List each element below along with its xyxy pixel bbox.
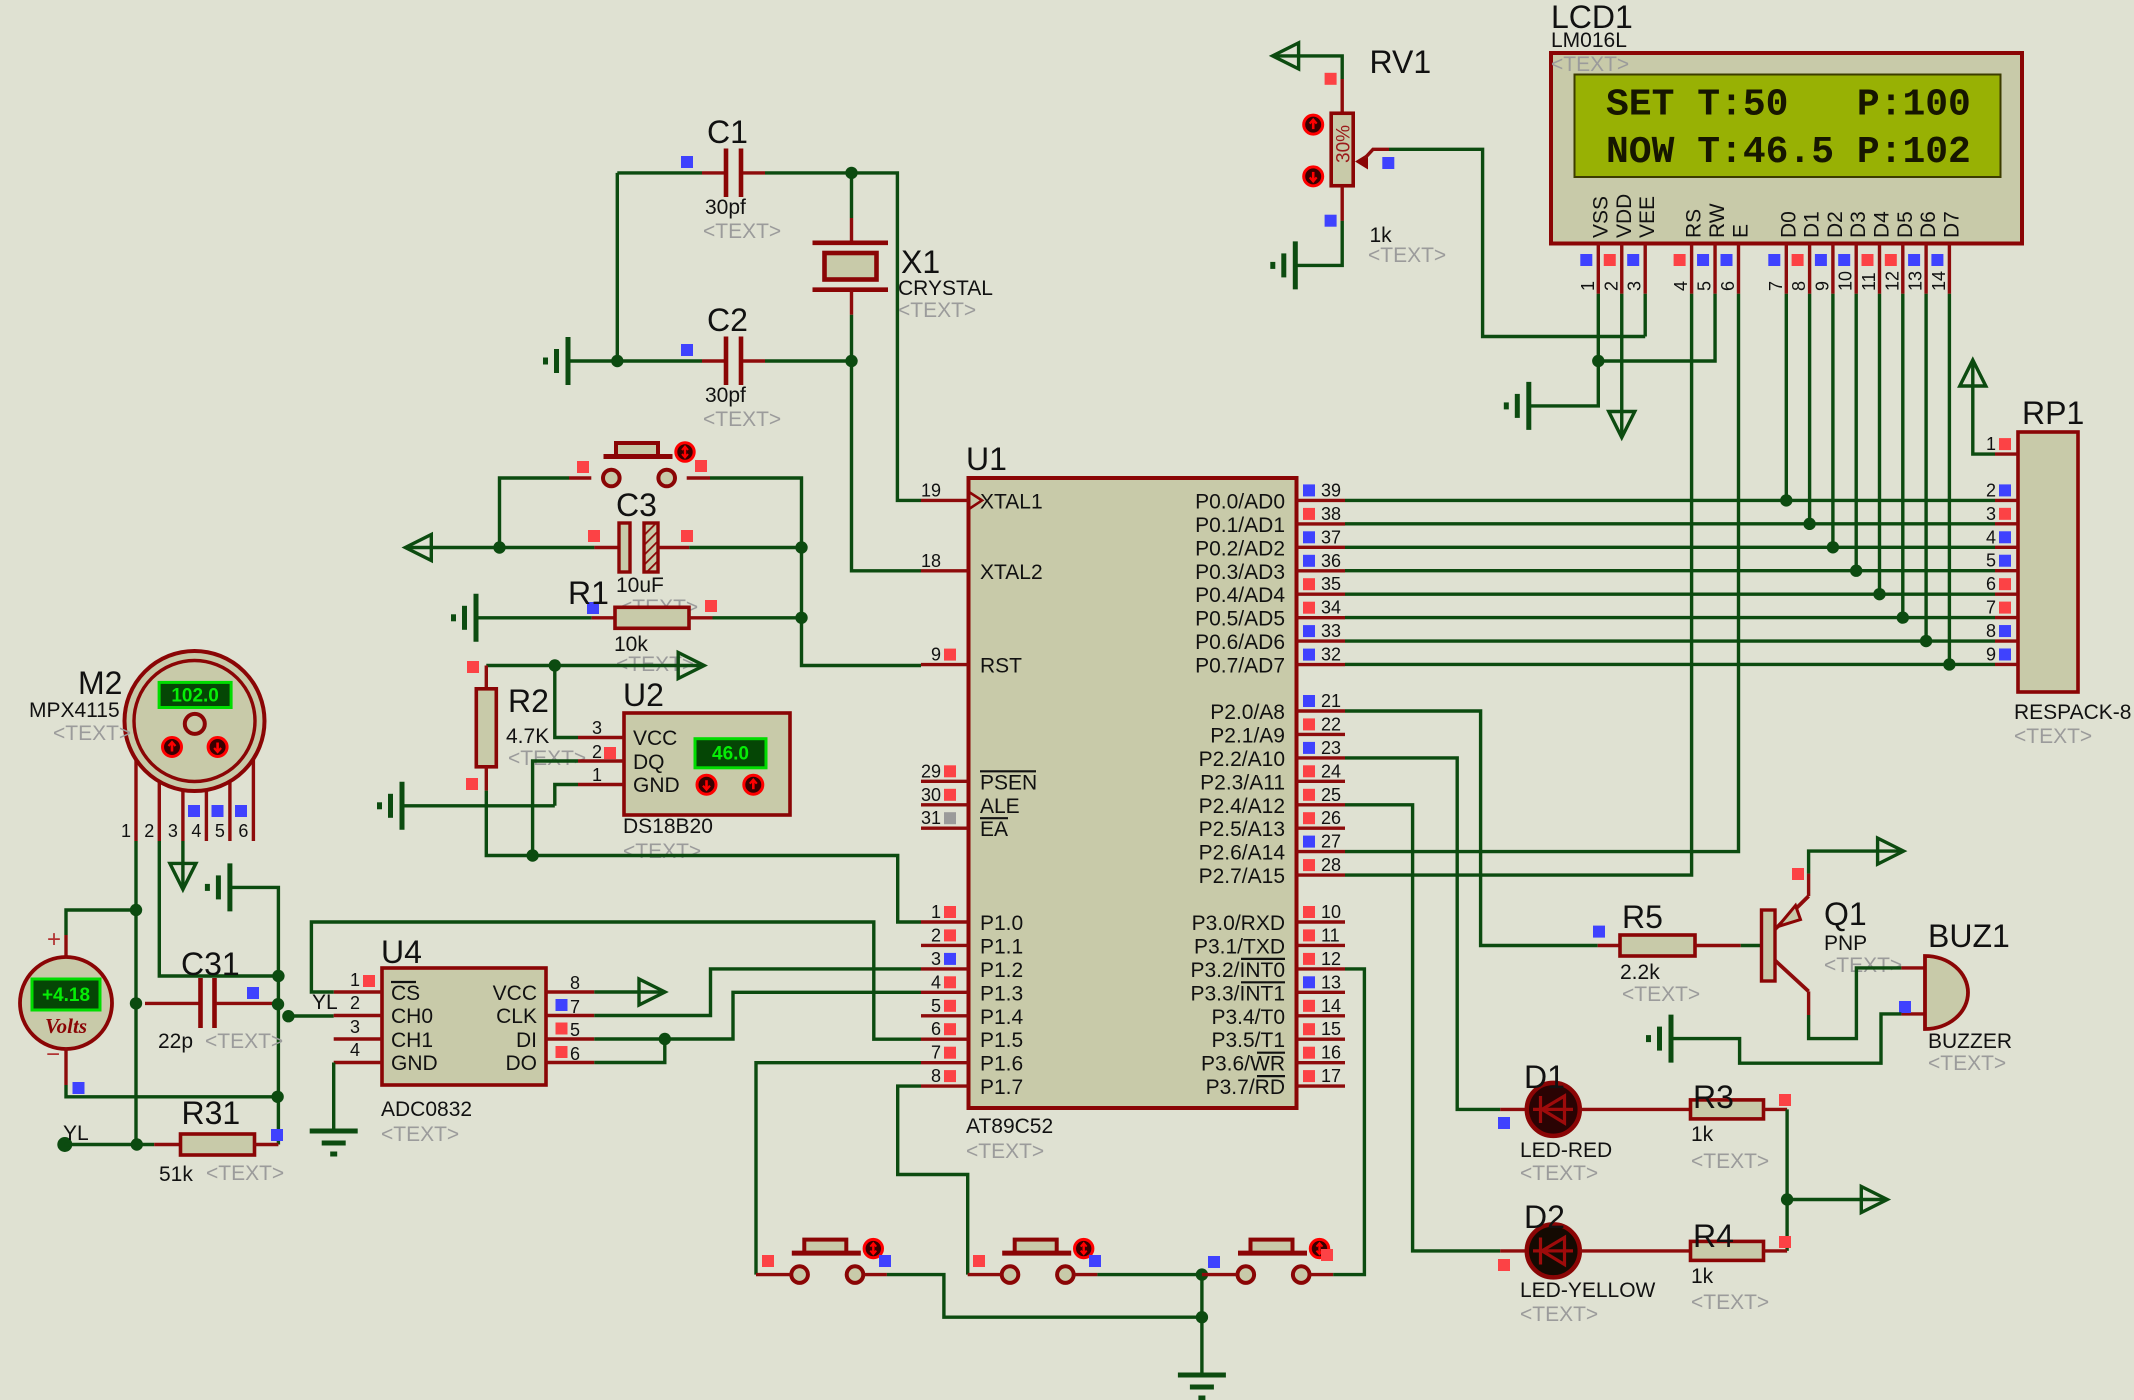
svg-text:<TEXT>: <TEXT> <box>703 220 781 243</box>
svg-text:R3: R3 <box>1693 1079 1734 1115</box>
wire <box>402 804 555 807</box>
svg-text:D2: D2 <box>1824 211 1847 238</box>
svg-text:P2.5/A13: P2.5/A13 <box>1199 818 1285 841</box>
wire <box>898 1086 968 1275</box>
power terminal <box>1609 412 1635 438</box>
svg-text:P1.2: P1.2 <box>980 959 1023 982</box>
junction <box>493 541 505 553</box>
svg-text:5: 5 <box>931 996 941 1016</box>
svg-text:7: 7 <box>570 997 580 1017</box>
junction <box>131 1138 143 1150</box>
ground <box>1506 382 1529 430</box>
svg-text:5: 5 <box>570 1020 580 1040</box>
svg-text:P3.6/WR: P3.6/WR <box>1201 1053 1285 1076</box>
wire <box>1672 1014 1901 1063</box>
wire <box>1200 1275 1203 1375</box>
junction <box>1780 494 1792 506</box>
svg-text:YL: YL <box>312 991 338 1014</box>
junction <box>611 355 623 367</box>
wire <box>1333 969 1364 1275</box>
wire <box>1973 361 1995 454</box>
svg-text:38: 38 <box>1321 504 1341 524</box>
svg-text:RESPACK-8: RESPACK-8 <box>2014 701 2131 724</box>
svg-text:10: 10 <box>1321 902 1341 922</box>
svg-text:P0.7/AD7: P0.7/AD7 <box>1195 655 1285 678</box>
LCD display LCD1 LM016L <box>1551 0 2022 294</box>
power terminal <box>1960 360 1986 386</box>
wire <box>1598 294 1715 361</box>
svg-text:C2: C2 <box>707 302 748 338</box>
wire <box>594 1037 665 1040</box>
wire <box>765 359 852 362</box>
svg-text:PNP: PNP <box>1824 932 1867 955</box>
svg-text:CH1: CH1 <box>391 1029 433 1052</box>
svg-text:P0.2/AD2: P0.2/AD2 <box>1195 537 1285 560</box>
svg-text:39: 39 <box>1321 480 1341 500</box>
resistor R2 4.7K <box>466 661 586 791</box>
wire <box>1854 294 1857 571</box>
ground <box>310 1131 358 1154</box>
junction <box>1827 541 1839 553</box>
svg-text:30%: 30% <box>1334 125 1355 163</box>
svg-text:1: 1 <box>1986 434 1996 454</box>
svg-text:D4: D4 <box>1871 211 1894 238</box>
wire <box>852 173 922 501</box>
svg-text:P2.2/A10: P2.2/A10 <box>1199 748 1285 771</box>
wire <box>713 616 802 619</box>
svg-text:SET T:50 P:100: SET T:50 P:100 <box>1606 84 1971 127</box>
svg-text:<TEXT>: <TEXT> <box>1928 1052 2006 1075</box>
svg-text:<TEXT>: <TEXT> <box>1691 1291 1769 1314</box>
svg-text:CS: CS <box>391 982 420 1005</box>
ground <box>1273 241 1296 289</box>
svg-text:31: 31 <box>921 808 941 828</box>
junction <box>549 659 561 671</box>
power terminal <box>1861 1187 1887 1213</box>
IC U1 AT89C52 <box>921 441 1345 1163</box>
wire <box>555 666 578 738</box>
power terminal <box>1273 43 1299 69</box>
svg-text:2: 2 <box>931 925 941 945</box>
svg-text:X1: X1 <box>901 244 940 280</box>
svg-text:P3.7/RD: P3.7/RD <box>1206 1076 1285 1099</box>
wire <box>1878 294 1881 594</box>
svg-text:9: 9 <box>1812 281 1832 291</box>
svg-text:7: 7 <box>1766 281 1786 291</box>
svg-text:102.0: 102.0 <box>171 685 219 706</box>
svg-text:3: 3 <box>168 821 178 841</box>
wire <box>486 791 921 922</box>
resistor R1 10k <box>568 575 717 676</box>
capacitor C2 <box>681 302 781 431</box>
wire <box>689 546 801 549</box>
svg-text:C1: C1 <box>707 114 748 150</box>
junction <box>1592 355 1604 367</box>
svg-text:D3: D3 <box>1847 211 1870 238</box>
svg-text:AT89C52: AT89C52 <box>966 1115 1053 1138</box>
svg-text:<TEXT>: <TEXT> <box>1368 244 1446 267</box>
capacitor C1 <box>681 114 781 243</box>
svg-text:33: 33 <box>1321 621 1341 641</box>
svg-text:GND: GND <box>633 774 680 797</box>
svg-text:8: 8 <box>1789 281 1809 291</box>
junction <box>659 1033 671 1045</box>
svg-text:29: 29 <box>921 761 941 781</box>
svg-text:2: 2 <box>1601 281 1621 291</box>
wire <box>406 546 594 549</box>
capacitor C3 10uF <box>588 487 698 619</box>
svg-text:<TEXT>: <TEXT> <box>703 408 781 431</box>
wire <box>159 841 278 976</box>
push button SW4 <box>1202 1239 1333 1282</box>
wire <box>1295 221 1342 266</box>
wire <box>1345 499 1995 502</box>
svg-text:30pf: 30pf <box>705 384 746 407</box>
wire <box>1901 294 1904 618</box>
svg-text:VCC: VCC <box>633 727 677 750</box>
IC U2 DS18B20 <box>578 677 790 863</box>
crystal X1 <box>813 218 993 322</box>
wire <box>1345 711 1598 946</box>
svg-text:1: 1 <box>931 902 941 922</box>
pressure sensor M2 MPX4115 <box>29 651 265 841</box>
wire <box>1809 968 1902 1039</box>
wire <box>1345 522 1995 525</box>
svg-text:P1.4: P1.4 <box>980 1006 1024 1029</box>
svg-text:P0.0/AD0: P0.0/AD0 <box>1195 490 1285 513</box>
svg-text:6: 6 <box>238 821 248 841</box>
svg-text:P1.0: P1.0 <box>980 912 1023 935</box>
svg-text:51k: 51k <box>159 1163 193 1186</box>
junction <box>130 997 142 1009</box>
wire <box>887 1275 1202 1318</box>
svg-text:6: 6 <box>931 1019 941 1039</box>
wire <box>230 887 279 1144</box>
wire <box>850 173 853 218</box>
svg-text:3: 3 <box>592 718 602 738</box>
svg-text:4: 4 <box>1986 527 1996 547</box>
wire <box>288 1014 333 1017</box>
svg-text:RST: RST <box>980 655 1022 678</box>
svg-text:U1: U1 <box>966 441 1007 477</box>
svg-text:9: 9 <box>931 645 941 665</box>
power terminal <box>594 979 665 1005</box>
wire <box>476 616 592 619</box>
wire <box>1831 294 1834 547</box>
svg-text:R4: R4 <box>1693 1218 1734 1254</box>
svg-text:VEE: VEE <box>1636 196 1659 238</box>
svg-text:DI: DI <box>516 1029 537 1052</box>
ground <box>1178 1375 1226 1398</box>
svg-text:MPX4115: MPX4115 <box>29 699 120 722</box>
svg-text:2: 2 <box>1986 480 1996 500</box>
svg-text:22: 22 <box>1321 714 1341 734</box>
svg-text:6: 6 <box>1718 281 1738 291</box>
svg-text:<TEXT>: <TEXT> <box>206 1162 284 1185</box>
wire <box>765 171 852 174</box>
junction <box>1781 1193 1793 1205</box>
svg-text:<TEXT>: <TEXT> <box>898 299 976 322</box>
svg-text:3: 3 <box>350 1017 360 1037</box>
wire <box>1097 1273 1202 1276</box>
svg-text:+: + <box>47 926 61 953</box>
wire <box>1345 805 1500 1251</box>
junction <box>1196 1268 1208 1280</box>
svg-text:P0.6/AD6: P0.6/AD6 <box>1195 631 1285 654</box>
svg-text:DS18B20: DS18B20 <box>623 815 713 838</box>
wire <box>756 1063 921 1275</box>
svg-text:ALE: ALE <box>980 795 1020 818</box>
junction <box>272 970 284 982</box>
svg-text:1: 1 <box>121 821 131 841</box>
wire <box>1785 294 1788 501</box>
wire <box>1948 294 1951 665</box>
wire <box>1274 56 1343 79</box>
svg-text:46.0: 46.0 <box>712 744 749 765</box>
ground <box>454 594 477 642</box>
svg-text:PSEN: PSEN <box>980 771 1037 794</box>
wire <box>1808 294 1811 524</box>
svg-text:BUZ1: BUZ1 <box>1928 918 2010 954</box>
svg-text:P2.3/A11: P2.3/A11 <box>1200 771 1285 794</box>
svg-text:DO: DO <box>506 1052 538 1075</box>
svg-text:RW: RW <box>1706 203 1729 238</box>
svg-text:32: 32 <box>1321 645 1341 665</box>
svg-text:<TEXT>: <TEXT> <box>1520 1303 1598 1326</box>
svg-text:P2.1/A9: P2.1/A9 <box>1210 724 1285 747</box>
voltmeter <box>20 926 112 1094</box>
power terminal <box>678 653 704 679</box>
svg-text:3: 3 <box>1625 281 1645 291</box>
wire <box>332 1063 335 1132</box>
svg-text:11: 11 <box>1321 925 1340 945</box>
svg-text:P2.0/A8: P2.0/A8 <box>1210 701 1285 724</box>
svg-text:<TEXT>: <TEXT> <box>1691 1150 1769 1173</box>
svg-text:M2: M2 <box>78 665 122 701</box>
svg-text:<TEXT>: <TEXT> <box>381 1123 459 1146</box>
capacitor C31 22p <box>145 946 283 1053</box>
wire <box>1345 569 1995 572</box>
svg-text:D1: D1 <box>1524 1059 1565 1095</box>
wire <box>850 315 853 361</box>
wire <box>1345 294 1692 875</box>
wire <box>568 359 702 362</box>
junction <box>272 998 284 1010</box>
svg-text:P1.3: P1.3 <box>980 982 1023 1005</box>
svg-text:P3.3/INT1: P3.3/INT1 <box>1190 982 1285 1005</box>
svg-text:P1.6: P1.6 <box>980 1053 1023 1076</box>
wire <box>852 361 922 571</box>
svg-text:P2.7/A15: P2.7/A15 <box>1199 865 1285 888</box>
svg-text:4.7K: 4.7K <box>506 725 549 748</box>
svg-text:22p: 22p <box>158 1030 193 1053</box>
svg-text:10uF: 10uF <box>616 574 664 597</box>
wire <box>1643 294 1646 337</box>
svg-text:P1.5: P1.5 <box>980 1029 1023 1052</box>
svg-text:23: 23 <box>1321 738 1341 758</box>
svg-text:LED-YELLOW: LED-YELLOW <box>1520 1279 1656 1302</box>
wire <box>1345 663 1995 666</box>
svg-text:<TEXT>: <TEXT> <box>508 747 586 770</box>
svg-text:37: 37 <box>1321 527 1341 547</box>
svg-text:<TEXT>: <TEXT> <box>623 840 701 863</box>
IC U4 ADC0832 <box>312 934 594 1146</box>
wire <box>65 1143 154 1146</box>
svg-text:30: 30 <box>921 785 941 805</box>
resistor R3 1k <box>1580 1079 1791 1173</box>
wire <box>594 969 921 1016</box>
svg-text:27: 27 <box>1321 832 1341 852</box>
svg-text:P1.1: P1.1 <box>980 935 1023 958</box>
resistor R4 1k <box>1580 1218 1791 1314</box>
ground <box>207 863 230 911</box>
junction <box>526 849 538 861</box>
svg-text:D1: D1 <box>1801 211 1824 238</box>
svg-text:YL: YL <box>63 1122 89 1145</box>
wire <box>802 548 922 666</box>
svg-text:<TEXT>: <TEXT> <box>1824 954 1902 977</box>
svg-text:CLK: CLK <box>496 1005 537 1028</box>
svg-text:2: 2 <box>350 993 360 1013</box>
svg-text:LM016L: LM016L <box>1551 29 1627 52</box>
svg-text:30pf: 30pf <box>705 196 746 219</box>
svg-text:D2: D2 <box>1524 1199 1565 1235</box>
junction <box>271 1091 283 1103</box>
svg-text:6: 6 <box>570 1044 580 1064</box>
junction <box>1850 565 1862 577</box>
junction <box>1920 635 1932 647</box>
transistor Q1 PNP <box>1762 868 1903 1015</box>
wire <box>1345 546 1995 549</box>
junction <box>1196 1311 1208 1323</box>
wire <box>311 922 921 1039</box>
wire <box>1809 851 1903 874</box>
svg-text:14: 14 <box>1929 271 1949 291</box>
svg-text:GND: GND <box>391 1052 438 1075</box>
svg-text:<TEXT>: <TEXT> <box>1551 53 1629 76</box>
wire <box>1345 592 1995 595</box>
svg-text:25: 25 <box>1321 785 1341 805</box>
node YL <box>57 1122 88 1152</box>
svg-text:1: 1 <box>350 970 360 990</box>
svg-text:13: 13 <box>1321 972 1341 992</box>
svg-text:RV1: RV1 <box>1370 44 1432 80</box>
power terminal <box>170 863 196 889</box>
svg-text:RS: RS <box>1683 209 1706 238</box>
LED D1 LED-RED <box>1498 1059 1612 1185</box>
wire <box>1741 944 1762 947</box>
svg-text:5: 5 <box>1986 551 1996 571</box>
svg-text:U2: U2 <box>623 677 664 713</box>
svg-text:R2: R2 <box>508 683 549 719</box>
svg-text:19: 19 <box>921 480 941 500</box>
svg-text:26: 26 <box>1321 808 1341 828</box>
svg-text:3: 3 <box>931 949 941 969</box>
ground <box>380 782 403 830</box>
svg-text:5: 5 <box>215 821 225 841</box>
svg-text:13: 13 <box>1906 271 1926 291</box>
svg-text:CH0: CH0 <box>391 1005 433 1028</box>
svg-text:P1.7: P1.7 <box>980 1076 1023 1099</box>
svg-text:21: 21 <box>1321 691 1341 711</box>
svg-text:P2.4/A12: P2.4/A12 <box>1199 795 1285 818</box>
svg-text:4: 4 <box>350 1040 360 1060</box>
svg-text:7: 7 <box>931 1043 941 1063</box>
junction <box>130 904 142 916</box>
svg-text:24: 24 <box>1321 761 1341 781</box>
svg-text:4: 4 <box>191 821 201 841</box>
svg-text:17: 17 <box>1321 1066 1341 1086</box>
wire <box>616 173 619 361</box>
svg-text:P2.6/A14: P2.6/A14 <box>1199 842 1286 865</box>
svg-text:RP1: RP1 <box>2022 395 2084 431</box>
svg-text:4: 4 <box>931 972 941 992</box>
svg-text:8: 8 <box>570 973 580 993</box>
wire <box>66 1085 278 1097</box>
svg-text:P3.0/RXD: P3.0/RXD <box>1192 912 1285 935</box>
junction <box>1897 611 1909 623</box>
svg-text:U4: U4 <box>381 934 422 970</box>
svg-text:C31: C31 <box>181 946 240 982</box>
wire <box>1389 149 1645 336</box>
svg-text:35: 35 <box>1321 574 1341 594</box>
svg-text:VCC: VCC <box>493 982 537 1005</box>
buzzer BUZ1 <box>1899 918 2012 1075</box>
svg-text:<TEXT>: <TEXT> <box>53 722 131 745</box>
wire <box>1345 639 1995 642</box>
svg-text:36: 36 <box>1321 551 1341 571</box>
svg-text:XTAL2: XTAL2 <box>980 561 1043 584</box>
push button SW3 <box>968 1239 1101 1282</box>
svg-text:DQ: DQ <box>633 751 665 774</box>
wire <box>1785 1109 1788 1251</box>
potentiometer RV1 1k <box>1304 44 1447 267</box>
power terminal <box>405 535 431 561</box>
svg-text:P0.4/AD4: P0.4/AD4 <box>1195 584 1285 607</box>
svg-text:R1: R1 <box>568 575 609 611</box>
resistor pack RP1 RESPACK-8 <box>1986 395 2132 748</box>
wire <box>555 785 578 806</box>
svg-text:12: 12 <box>1321 949 1341 969</box>
svg-text:<TEXT>: <TEXT> <box>1622 983 1700 1006</box>
wire <box>594 1039 665 1063</box>
svg-text:D0: D0 <box>1777 211 1800 238</box>
junction <box>795 541 807 553</box>
svg-text:5: 5 <box>1695 281 1715 291</box>
junction <box>1943 658 1955 670</box>
svg-text:BUZZER: BUZZER <box>1928 1030 2012 1053</box>
svg-text:C3: C3 <box>616 487 657 523</box>
svg-text:Volts: Volts <box>45 1014 87 1038</box>
junction <box>1803 518 1815 530</box>
wire <box>1787 1198 1886 1201</box>
svg-text:VSS: VSS <box>1589 196 1612 238</box>
svg-text:1: 1 <box>1578 281 1598 291</box>
svg-text:D5: D5 <box>1894 211 1917 238</box>
svg-text:6: 6 <box>1986 574 1996 594</box>
power terminal <box>1878 838 1904 864</box>
svg-text:<TEXT>: <TEXT> <box>1520 1162 1598 1185</box>
resistor R5 2.2k <box>1593 899 1741 1006</box>
svg-text:Q1: Q1 <box>1824 896 1867 932</box>
svg-text:E: E <box>1730 224 1753 238</box>
wire <box>181 841 184 888</box>
push button SW2 <box>756 1239 891 1282</box>
svg-text:11: 11 <box>1859 272 1879 291</box>
svg-text:ADC0832: ADC0832 <box>381 1098 472 1121</box>
svg-text:9: 9 <box>1986 644 1996 664</box>
junction <box>845 167 857 179</box>
